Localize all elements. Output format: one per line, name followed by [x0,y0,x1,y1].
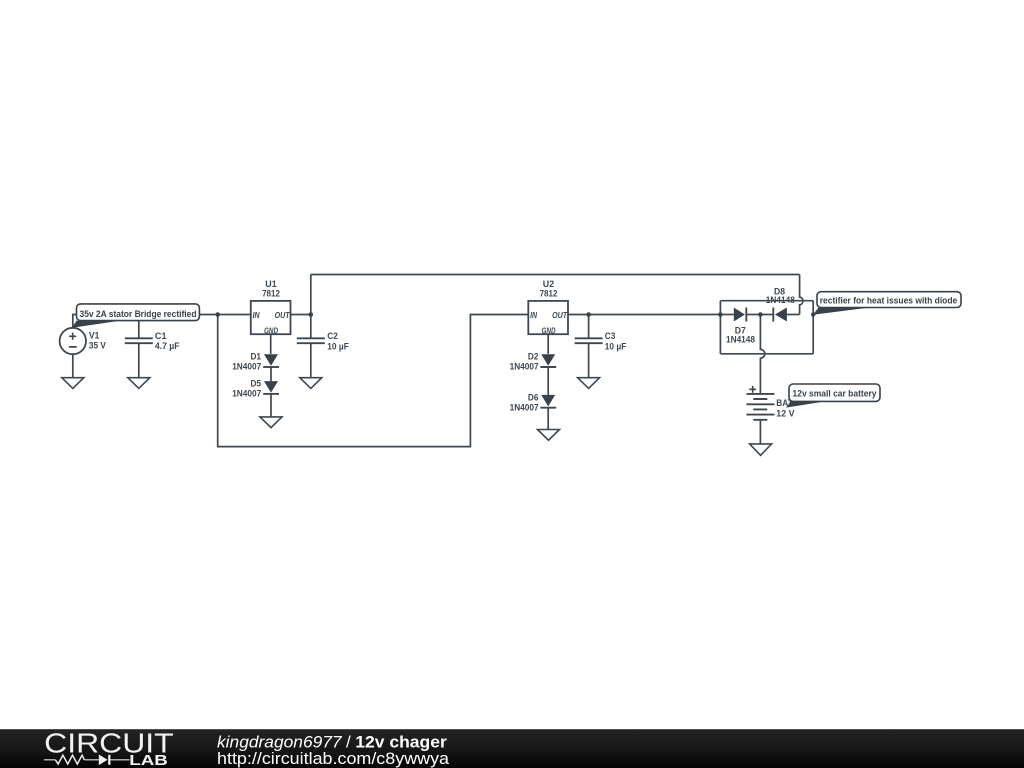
svg-text:GND: GND [542,325,556,335]
diode D2 [541,354,555,366]
battery BAT1 [749,386,756,393]
op-amp U1 regulator box 7812 [251,301,291,334]
svg-text:7812: 7812 [540,287,558,298]
svg-text:LAB: LAB [129,752,168,768]
wire node A drop down and across to U2 IN [218,315,529,447]
svg-text:10 µF: 10 µF [327,340,349,351]
wire D8 anode to loop right [787,314,800,316]
svg-text:10 µF: 10 µF [605,340,627,351]
wire U2 GND pin to D2 [547,334,549,354]
svg-text:http://circuitlab.com/c8ywwya: http://circuitlab.com/c8ywwya [217,749,450,768]
node E junction dot [758,312,763,317]
capacitor C2 [297,338,325,343]
callout note 3: 12v small car battery [786,401,826,407]
callout note 1: 35v 2A stator Bridge rectified [72,321,120,328]
svg-text:1N4007: 1N4007 [510,361,539,372]
node A junction dot [215,312,220,317]
svg-text:1N4148: 1N4148 [726,334,755,345]
wire loop bottom segment [720,353,813,355]
ground below V1 [62,378,84,389]
svg-text:35v 2A stator Bridge rectified: 35v 2A stator Bridge rectified [80,309,197,320]
wire loop right vertical [812,301,814,354]
logo resistor and diode symbol [44,759,130,761]
capacitor C3 [575,338,603,343]
wire U2 OUT to node C [568,314,589,316]
svg-text:12 V: 12 V [776,407,795,418]
svg-text:1N4007: 1N4007 [510,401,539,412]
wire C1 bottom stem [138,343,140,378]
ground below C2 [300,378,322,389]
wire U1 OUT to node B [291,314,311,316]
wire node B vertical through to C2 [310,275,312,339]
svg-text:OUT: OUT [275,310,291,320]
wire D7 cathode to node E [746,314,760,316]
svg-text:1N4007: 1N4007 [232,360,261,371]
wire loop top segment [720,300,813,302]
wire D5 to ground [270,394,272,417]
wire D1 to D5 [270,367,272,381]
callout note 2: rectifier for heat issues with diode [813,308,869,315]
wire node A horizontal rail V1 to U1 IN [77,314,251,316]
diode D1 [264,354,278,366]
diode D6 [541,395,555,407]
wire battery bottom stem [759,420,761,444]
wire C2 bottom stem [310,343,312,378]
svg-text:rectifier for heat issues with: rectifier for heat issues with diode [820,296,958,307]
wire C3 top stem [588,315,590,339]
svg-text:IN: IN [253,310,261,320]
wire loop left vertical [719,301,721,354]
op-amp U2 regulator box 7812 [528,301,568,334]
wire node E to D8 cathode [760,314,773,316]
node F junction dot (callout anchor) [811,312,815,316]
wire C1 top stem [138,315,140,339]
wire node C to node D [589,314,721,316]
voltage source V1 [60,328,86,354]
diode D8 [772,308,774,322]
svg-text:4.7 µF: 4.7 µF [155,340,180,351]
node D junction dot [718,312,723,317]
node C junction dot [586,312,591,317]
ground below battery [750,444,772,455]
svg-text:IN: IN [530,310,538,320]
wire D6 to ground [547,408,549,430]
ground below C1 [128,378,150,389]
svg-text:GND: GND [264,325,278,335]
svg-text:7812: 7812 [262,287,280,298]
wire top rail node B to D8 drop [311,274,800,276]
ground below D5 [260,417,282,428]
svg-text:1N4148: 1N4148 [766,294,795,305]
wire U1 GND pin to D1 [270,334,272,354]
svg-text:OUT: OUT [552,310,568,320]
wire V1 bottom stem [72,354,74,377]
svg-text:12v small car battery: 12v small car battery [793,388,878,399]
ground below C3 [578,378,600,389]
node B junction dot [309,312,314,317]
diode D7 [734,308,745,322]
wire D2 to D6 [547,367,549,395]
wire top rail drop to D8 anode with hop [800,275,803,315]
wire node E drop to battery with hop [760,315,764,394]
wire V1 top stub to node A [73,315,77,328]
wire node D to D7 anode [720,314,733,316]
svg-text:35 V: 35 V [89,340,107,351]
wire C3 bottom stem [588,343,590,378]
diode D5 [264,381,278,393]
svg-text:1N4007: 1N4007 [232,387,261,398]
capacitor C1 [125,338,153,343]
ground below D6 [538,430,560,441]
